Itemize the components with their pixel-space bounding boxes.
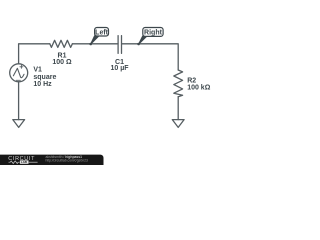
wire V1 to left ground [18,82,20,120]
svg-text:Left: Left [95,29,109,36]
wire R1 to capacitor left plate [72,43,118,45]
node Right flag pointer [139,36,148,45]
svg-text:V1: V1 [33,67,42,74]
resistor R2 [174,70,183,97]
wire top-left corner to R1 [19,44,50,64]
node Right flag box [143,28,163,37]
wire capacitor to top-right corner [122,44,179,70]
voltage source V1 [10,64,28,82]
V1 plus sign [20,65,23,68]
watermark logo line right [29,161,38,163]
svg-text:100 kΩ: 100 kΩ [187,84,211,91]
svg-text:10 µF: 10 µF [110,65,129,72]
svg-text:10 Hz: 10 Hz [33,81,52,88]
V1 minus sign [16,79,20,81]
svg-text:Right: Right [144,30,163,37]
capacitor C1 [118,36,121,54]
svg-text:square: square [33,74,56,81]
resistor R1 [50,40,73,47]
ground left [13,120,25,128]
svg-text:R2: R2 [187,77,196,84]
node Left flag box [95,28,109,37]
svg-text:LAB: LAB [21,160,28,164]
watermark bar [0,155,104,169]
wire R2 to right ground [177,97,179,120]
node Left flag pointer [91,36,100,45]
svg-text:http:⁄⁄circuitlab.com⁄c⁄gs0n23: http:⁄⁄circuitlab.com⁄c⁄gs0n23 [46,159,89,163]
watermark logo LAB box [20,160,29,163]
watermark logo resistor zigzag left [9,161,20,164]
V1 waveform glyph [13,68,24,77]
svg-text:100 Ω: 100 Ω [52,59,72,66]
ground right [172,120,184,128]
